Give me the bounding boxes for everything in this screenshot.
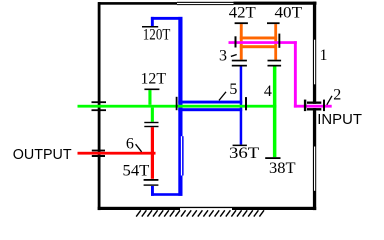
tick above gear 40T (267, 22, 280, 24)
tick above gear 12T (144, 89, 159, 91)
tick below gear 36T (233, 145, 247, 147)
svg-text:2: 2 (333, 87, 341, 104)
blue sleeve bottom bar on green shaft (178, 108, 242, 111)
magenta input shaft bottom horizontal (294, 105, 332, 108)
tick above gear 42T (235, 22, 248, 24)
blue main vertical shaft (178, 17, 182, 196)
gear 120T bracket (blue) (151, 17, 183, 26)
blue bottom gear bracket (151, 186, 182, 196)
gear 12T vertical upper (green) (148, 90, 151, 105)
casing right border (313, 2, 316, 211)
svg-text:12T: 12T (141, 70, 167, 87)
tick left of blue sleeve (176, 97, 178, 110)
tick on shaft 3 left (235, 36, 237, 47)
svg-text:40T: 40T (275, 5, 303, 22)
svg-text:OUTPUT: OUTPUT (13, 146, 72, 163)
svg-text:36T: 36T (229, 145, 259, 162)
svg-text:4: 4 (264, 83, 272, 100)
casing top journal section (177, 1, 234, 5)
left wall bearing output shaft (92, 150, 105, 157)
magenta input shaft top horizontal (229, 41, 297, 44)
foundation hatching (136, 210, 264, 216)
tick on shaft 3 right (278, 34, 280, 48)
casing top border (98, 2, 316, 5)
svg-text:54T: 54T (123, 163, 150, 180)
right border journal gap lower (314, 147, 315, 191)
svg-text:38T: 38T (269, 160, 296, 177)
shaft 4 vertical with gear 38T (green) (273, 67, 277, 158)
orange sleeve bottom bar (240, 45, 277, 48)
svg-text:1: 1 (320, 47, 328, 64)
tick above gear 120T (142, 26, 158, 28)
gear 42T vertical (orange) (240, 24, 243, 60)
coupling under 42T (232, 60, 247, 67)
bottom border journal gap (180, 208, 232, 210)
svg-text:42T: 42T (229, 5, 256, 22)
tick right of blue sleeve (245, 97, 247, 110)
svg-text:3: 3 (219, 47, 227, 64)
pointer to shaft 2 (327, 96, 332, 105)
magenta input shaft vertical (294, 41, 297, 107)
blue sleeve top bar on green shaft (178, 101, 242, 104)
gear 36T vertical (blue) (240, 66, 243, 144)
input bearing white core (307, 104, 321, 108)
gear 12T vertical lower (green) (151, 108, 154, 122)
svg-text:120T: 120T (143, 27, 171, 44)
mesh 12T-54T (144, 122, 158, 127)
pointer to shaft 5 (219, 92, 226, 101)
left wall bearing green shaft (92, 101, 107, 111)
coupling under 40T (268, 60, 282, 67)
svg-text:5: 5 (229, 81, 237, 98)
mesh 54T-bottom gear (144, 179, 159, 186)
green input lay shaft horizontal (78, 105, 277, 108)
pointer to shaft 3 (231, 55, 237, 57)
blue shaft hollow core (181, 136, 182, 175)
tick below gear 38T (265, 157, 280, 159)
blue shaft hollow section outer edge (182, 136, 184, 175)
input shaft bearing (304, 100, 325, 112)
svg-text:6: 6 (126, 136, 134, 153)
pointer to shaft 6 (136, 144, 142, 152)
right border journal gap upper (314, 40, 315, 85)
casing top right thick section (234, 2, 317, 5)
casing bottom border (98, 207, 317, 210)
casing left border (98, 2, 101, 210)
gear 40T vertical (orange) (274, 24, 277, 60)
gear 54T vertical (red) (151, 127, 154, 179)
svg-text:INPUT: INPUT (317, 111, 362, 128)
orange sleeve top bar (240, 37, 277, 40)
red output shaft horizontal (78, 152, 156, 155)
